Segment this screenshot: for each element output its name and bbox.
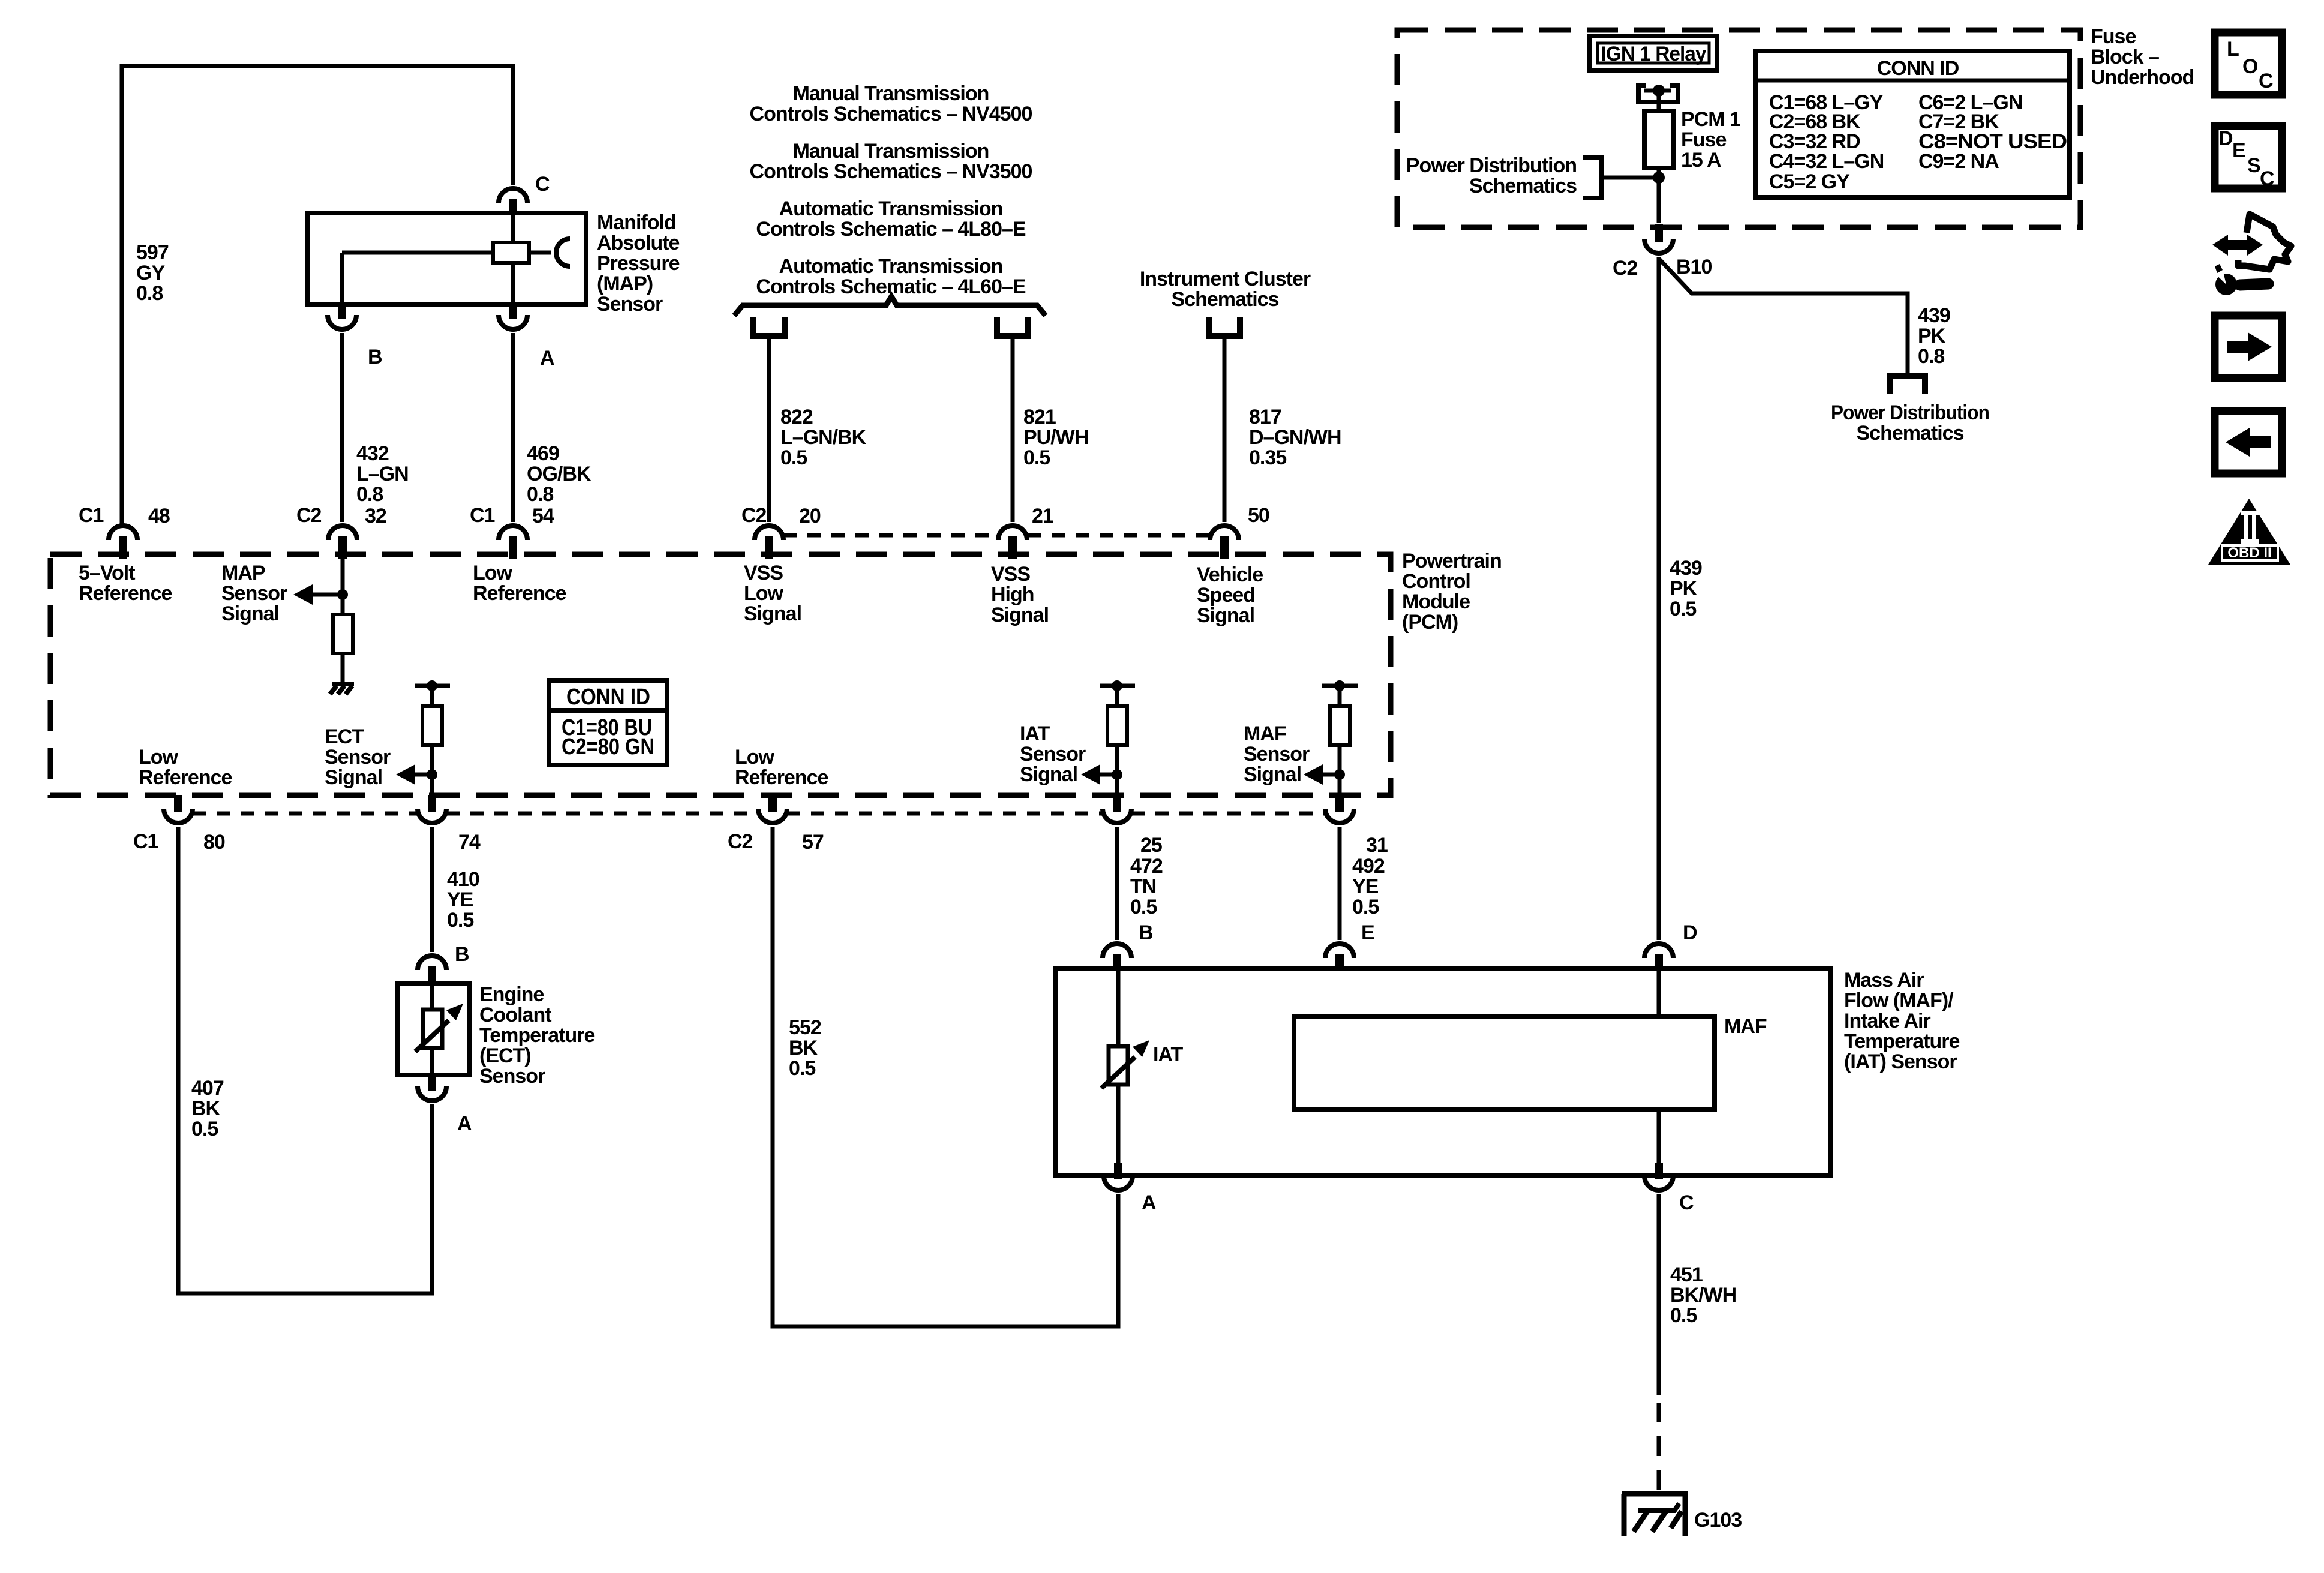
CONN ID table (PCM) [549,680,667,765]
pin 50 [1210,504,1269,559]
svg-text:Low: Low [735,746,775,769]
MAP internal wiring [342,213,551,305]
svg-text:0.5: 0.5 [1130,896,1157,918]
bracket to Power Distribution [1583,157,1601,198]
svg-text:L: L [2227,38,2239,61]
branch wire 439 PK 0.8 [1659,259,1908,374]
svg-text:0.5: 0.5 [789,1057,815,1080]
svg-text:(ECT): (ECT) [479,1044,531,1067]
IAT thermistor inside box [1101,969,1183,1175]
wire 469 OG/BK [511,333,515,522]
svg-text:IAT: IAT [1153,1043,1183,1066]
svg-text:Signal: Signal [744,602,801,625]
svg-text:GY: GY [136,262,165,284]
wire 439 PK 0.5 main run [1657,257,1661,940]
svg-text:Mass Air: Mass Air [1844,969,1924,992]
svg-text:C2: C2 [728,830,753,853]
relay contact symbol [1636,85,1680,111]
pin C2 32 [296,504,386,559]
MAP sensor box [307,213,586,305]
svg-text:Powertrain: Powertrain [1402,550,1502,572]
svg-text:B: B [1139,921,1153,944]
svg-text:0.5: 0.5 [447,909,473,932]
svg-text:Schematics: Schematics [1857,422,1964,445]
pin C2 B10 [1613,224,1712,280]
svg-text:821: 821 [1023,406,1056,428]
wire 597 GY top-left loop [122,66,513,524]
svg-text:A: A [457,1112,472,1135]
wire 407 BK loop [178,827,432,1293]
svg-text:5–Volt: 5–Volt [79,562,135,584]
svg-text:Fuse: Fuse [1681,128,1726,151]
svg-text:492: 492 [1352,855,1385,878]
svg-text:YE: YE [1352,875,1379,898]
resistor in PCM (MAP) [333,614,353,653]
svg-text:0.5: 0.5 [191,1118,218,1140]
icon back arrow box [2215,411,2282,473]
svg-text:G103: G103 [1694,1509,1742,1532]
svg-text:Sensor: Sensor [479,1065,545,1088]
svg-text:0.8: 0.8 [136,282,163,305]
off-page connector to Power Distribution [1890,376,1925,394]
icon diagnostic (arrow + wrench) [2212,214,2291,295]
svg-text:D: D [1683,921,1697,944]
svg-text:Signal: Signal [221,602,279,625]
svg-text:Automatic Transmission: Automatic Transmission [779,197,1003,220]
MAF pull-up in PCM [1304,680,1358,798]
svg-text:451: 451 [1670,1263,1703,1286]
svg-text:C9=2 NA: C9=2 NA [1918,150,1999,173]
svg-text:50: 50 [1248,504,1269,527]
svg-text:IGN 1 Relay: IGN 1 Relay [1601,43,1707,65]
wire 432 L-GN [340,333,344,522]
wire 451 BK/WH [1657,1194,1661,1395]
CONN ID table (fuse block) [1756,51,2070,197]
svg-text:0.5: 0.5 [1352,896,1379,918]
pin 31 [1325,795,1388,857]
dotted line pins 20-21-50 [783,533,1209,538]
svg-text:552: 552 [789,1016,821,1039]
svg-text:(PCM): (PCM) [1402,611,1458,634]
svg-text:B10: B10 [1676,256,1712,278]
svg-text:54: 54 [532,505,554,527]
svg-text:TN: TN [1130,875,1156,898]
off-page connector (VSS high) [997,317,1028,336]
pin 21 [998,505,1053,559]
pin C1 48 [79,504,170,559]
wire 410 YE [430,827,434,952]
off-page connector (vehicle speed) [1209,317,1240,336]
svg-text:(MAP): (MAP) [597,272,653,295]
svg-text:Controls Schematics – NV4500: Controls Schematics – NV4500 [750,103,1032,125]
svg-text:15 A: 15 A [1681,149,1721,172]
svg-text:Sensor: Sensor [1244,743,1310,766]
svg-text:48: 48 [148,505,170,527]
svg-text:Signal: Signal [991,604,1049,626]
svg-text:L–GN/BK: L–GN/BK [780,426,867,449]
svg-text:0.5: 0.5 [1023,446,1050,469]
svg-text:Sensor: Sensor [325,746,391,769]
pin 25 [1103,795,1162,857]
PCM dashed box [50,554,1391,795]
svg-text:0.8: 0.8 [527,483,553,506]
svg-text:Engine: Engine [479,983,544,1006]
pin 74 [418,795,481,854]
icon OBD II triangle [2208,499,2290,565]
ground symbol in PCM [330,684,354,694]
svg-text:Reference: Reference [79,582,172,605]
svg-text:Flow (MAF)/: Flow (MAF)/ [1844,989,1954,1012]
off-page connector (VSS low) [753,317,785,336]
svg-text:410: 410 [447,868,479,891]
svg-text:D–GN/WH: D–GN/WH [1249,426,1341,449]
svg-text:0.35: 0.35 [1249,446,1286,469]
connector D of MAF/IAT sensor [1644,921,1697,971]
svg-text:E: E [1361,921,1374,944]
svg-text:C2=80 GN: C2=80 GN [562,734,654,760]
connector E of MAF/IAT sensor [1325,921,1374,971]
svg-text:C: C [535,173,550,196]
svg-text:Signal: Signal [1020,763,1077,786]
icon LOC box [2215,32,2282,95]
svg-text:MAP: MAP [221,562,265,584]
svg-text:A: A [540,347,554,370]
svg-text:Instrument Cluster: Instrument Cluster [1140,268,1311,290]
pin C1 54 [470,504,554,559]
svg-text:VSS: VSS [991,563,1030,586]
svg-text:Low: Low [139,746,179,769]
svg-text:Reference: Reference [735,766,828,789]
connector A of MAF/IAT sensor [1104,1163,1156,1214]
svg-text:20: 20 [799,505,821,527]
svg-text:32: 32 [365,505,386,527]
svg-text:C2: C2 [741,504,767,527]
svg-text:C1: C1 [79,504,104,527]
svg-text:Manual Transmission: Manual Transmission [793,82,989,105]
svg-text:Power Distribution: Power Distribution [1831,401,1989,424]
pin C1 80 [133,795,225,854]
svg-text:57: 57 [802,831,824,854]
svg-text:597: 597 [136,241,169,264]
svg-text:Sensor: Sensor [1020,743,1086,766]
svg-text:Module: Module [1402,590,1470,613]
svg-text:CONN ID: CONN ID [1877,57,1959,80]
junction dot [1653,172,1665,184]
svg-text:Low: Low [473,562,513,584]
svg-text:Pressure: Pressure [597,252,680,275]
icon DESC box [2215,126,2282,190]
svg-text:MAF: MAF [1244,722,1286,745]
svg-text:Speed: Speed [1197,584,1255,607]
MAF/IAT sensor box [1056,969,1831,1175]
connector C of MAP sensor [499,173,550,215]
svg-text:OBD II: OBD II [2227,545,2271,561]
svg-text:BK: BK [191,1097,221,1120]
svg-text:Reference: Reference [139,766,232,789]
svg-text:0.5: 0.5 [1670,1304,1697,1327]
svg-text:A: A [1142,1191,1156,1214]
svg-text:Power Distribution: Power Distribution [1406,154,1577,177]
brace over transmission connectors [734,296,1046,316]
svg-text:Fuse: Fuse [2091,25,2136,48]
svg-text:C1: C1 [470,504,495,527]
wire 821 PU/WH [1011,339,1015,522]
dotted line pins 80-74-57-25-31 [193,812,1325,816]
svg-text:439: 439 [1670,557,1702,580]
svg-text:439: 439 [1918,304,1950,327]
svg-text:Schematics: Schematics [1172,288,1279,311]
wire 492 YE [1338,827,1342,940]
svg-text:PU/WH: PU/WH [1023,426,1088,449]
svg-text:PK: PK [1918,325,1946,347]
svg-text:Signal: Signal [1244,763,1301,786]
svg-text:MAF: MAF [1724,1015,1767,1038]
svg-text:31: 31 [1366,834,1388,857]
svg-text:469: 469 [527,442,559,465]
dashed wire to ground [1657,1403,1661,1493]
svg-text:432: 432 [356,442,389,465]
svg-text:C: C [2259,70,2273,92]
svg-text:BK/WH: BK/WH [1670,1284,1736,1307]
svg-text:0.8: 0.8 [1918,345,1944,368]
svg-text:C4=32 L–GN: C4=32 L–GN [1769,150,1884,173]
svg-text:OG/BK: OG/BK [527,463,591,485]
svg-text:74: 74 [458,831,481,854]
svg-text:Sensor: Sensor [597,293,663,316]
svg-text:Temperature: Temperature [1844,1030,1960,1053]
svg-text:Control: Control [1402,570,1470,593]
svg-text:(IAT) Sensor: (IAT) Sensor [1844,1050,1957,1073]
svg-text:L–GN: L–GN [356,463,409,485]
fuse PCM 1 [1644,111,1673,168]
connector C of MAF/IAT sensor [1644,1163,1694,1214]
svg-text:Absolute: Absolute [597,232,680,254]
pin C2 20 [741,504,821,559]
svg-text:C2: C2 [296,504,322,527]
svg-text:C2: C2 [1613,257,1638,280]
svg-text:Reference: Reference [473,582,566,605]
svg-text:YE: YE [447,888,473,911]
MAP pressure port symbol [556,239,570,266]
svg-text:80: 80 [203,831,225,854]
svg-text:472: 472 [1130,855,1163,878]
MAF element inner box [1294,969,1767,1175]
wire 817 D-GN/WH [1223,339,1227,522]
ECT thermistor [415,983,463,1075]
svg-text:Intake Air: Intake Air [1844,1010,1930,1032]
svg-text:822: 822 [780,406,813,428]
svg-text:VSS: VSS [744,562,783,584]
wire 552 BK loop [773,827,1118,1326]
svg-text:O: O [2242,55,2258,78]
svg-text:PK: PK [1670,577,1698,600]
svg-text:Signal: Signal [325,766,382,789]
connector A of MAP sensor [499,303,554,370]
wire 472 TN [1115,827,1119,940]
connector B of MAP sensor [328,303,382,368]
svg-text:Controls Schematic – 4L80–E: Controls Schematic – 4L80–E [756,218,1026,241]
branch to Power Distribution Schematics [1603,176,1659,180]
svg-text:Controls Schematics – NV3500: Controls Schematics – NV3500 [750,160,1032,183]
svg-text:C: C [2260,167,2274,190]
wire 822 L-GN/BK [767,339,771,522]
svg-text:Schematics: Schematics [1469,175,1577,197]
ground G103 [1622,1494,1742,1536]
svg-text:Coolant: Coolant [479,1004,551,1026]
svg-text:817: 817 [1249,406,1281,428]
svg-text:C1: C1 [133,830,158,853]
svg-text:0.8: 0.8 [356,483,383,506]
svg-text:Vehicle: Vehicle [1197,563,1263,586]
svg-text:B: B [455,943,469,966]
svg-text:CONN ID: CONN ID [566,685,650,710]
MAP sensor signal arrow and pull-down [293,536,348,614]
IAT pull-up in PCM [1081,680,1135,798]
svg-text:Signal: Signal [1197,604,1254,627]
svg-text:C5=2 GY: C5=2 GY [1769,170,1850,193]
svg-text:Manual Transmission: Manual Transmission [793,140,989,163]
icon forward arrow box [2215,316,2282,378]
wire fuse to pin B10 [1657,168,1661,223]
svg-text:0.5: 0.5 [780,446,807,469]
connector A of ECT [418,1074,472,1135]
svg-text:C: C [1679,1191,1694,1214]
fuse block dashed box [1397,30,2080,227]
svg-text:Block –: Block – [2091,46,2159,68]
ECT pull-up in PCM [396,680,450,798]
svg-text:High: High [991,583,1034,606]
svg-text:25: 25 [1140,834,1162,857]
svg-text:Automatic Transmission: Automatic Transmission [779,255,1003,278]
ECT sensor box [398,983,470,1075]
svg-text:E: E [2232,139,2245,162]
svg-text:Sensor: Sensor [221,582,287,605]
pin C2 57 [728,795,824,854]
svg-text:Temperature: Temperature [479,1024,595,1047]
svg-text:IAT: IAT [1020,722,1050,745]
svg-text:Low: Low [744,582,784,605]
MAP sensing element (resistor) [493,242,529,263]
svg-text:Underhood: Underhood [2091,66,2194,89]
svg-text:S: S [2247,154,2260,177]
svg-text:ECT: ECT [325,725,364,748]
svg-text:PCM 1: PCM 1 [1681,108,1740,131]
svg-text:407: 407 [191,1077,224,1100]
wire resistor to ground [341,653,345,682]
svg-text:0.5: 0.5 [1670,598,1696,620]
svg-text:Manifold: Manifold [597,211,676,234]
svg-text:B: B [368,346,382,368]
svg-text:21: 21 [1032,505,1053,527]
svg-text:BK: BK [789,1037,818,1059]
IGN 1 Relay label box [1590,36,1717,70]
connector B of MAF/IAT sensor [1103,921,1153,971]
connector B of ECT [418,943,469,984]
svg-text:D: D [2218,127,2233,150]
